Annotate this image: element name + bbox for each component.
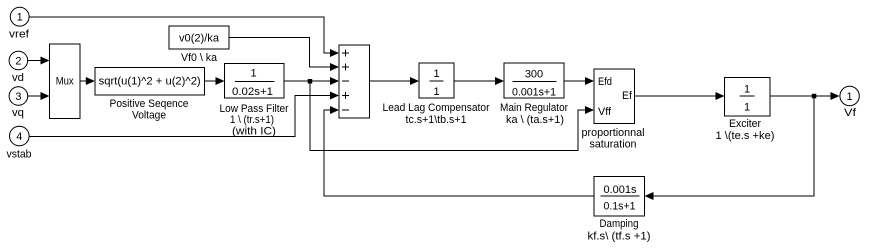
wire Low Pass Filter output to sum input 3 [284,80,330,82]
input port 4 (vstab) [7,126,32,160]
arrowhead into sum input 1 [330,49,339,57]
svg-text:4: 4 [16,131,22,143]
svg-text:1: 1 [847,91,853,103]
arrowhead into Lead Lag Compensator [410,77,419,85]
wire Damping output to sum input 5 [324,110,594,196]
wire sum output to Lead Lag Compensator [370,80,411,82]
svg-text:1: 1 [17,12,23,24]
svg-text:Vf: Vf [844,107,857,119]
wire Mux output to sqrt block [80,80,86,82]
arrowhead into Exciter [716,92,725,100]
sign - (input 5) [342,109,349,111]
wire Exciter output to output port Vf [770,95,831,97]
arrowhead into output port [831,92,840,100]
svg-text:vref: vref [9,29,30,41]
input port 2 (vd) [9,51,28,84]
block: constant v0(2)/ka [169,26,229,64]
block: Positive Sequence Voltage (sqrt) [95,68,205,122]
sign + (input 4) [342,92,349,99]
sum block [339,45,370,118]
arrowhead into sum input 4 [330,92,339,100]
block: Low Pass Filter transfer fcn [220,64,289,138]
svg-text:(with IC): (with IC) [232,126,276,138]
sign - (input 3) [342,80,349,82]
svg-text:kf.s\ (tf.s +1): kf.s\ (tf.s +1) [588,231,651,243]
arrowhead into sum input 3 [330,77,339,85]
svg-text:1: 1 [433,86,439,98]
svg-text:vd: vd [12,72,24,84]
wire vref: port1 to sum input 1 [29,17,330,53]
svg-text:1: 1 [250,68,256,80]
wire sqrt output to Low Pass Filter [204,80,215,82]
svg-text:0.02s+1: 0.02s+1 [232,86,273,98]
wire vstab: port4 to sum input 4 [29,96,330,137]
wire feedback: junction down to damping input [654,96,815,196]
wire vd to Mux [28,60,41,62]
svg-text:vstab: vstab [7,149,32,161]
block: Main Regulator transfer fcn [500,63,568,126]
svg-text:Damping: Damping [600,218,639,230]
svg-text:proportionnal: proportionnal [582,127,645,139]
arrowhead into Damping block (pointing left) [645,192,654,200]
svg-text:2: 2 [15,56,21,68]
svg-text:1: 1 [744,102,750,114]
wire vq to Mux [28,95,41,97]
arrowhead into Vff input [585,106,594,114]
svg-text:Main Regulator: Main Regulator [500,102,568,114]
svg-text:1: 1 [744,84,750,96]
svg-text:0.1s+1: 0.1s+1 [604,201,636,213]
svg-text:vq: vq [12,107,24,119]
wire Lead Lag output to Main Regulator [454,80,495,82]
Mux block [50,44,81,119]
block: proportionnal saturation [582,69,645,151]
arrowhead into sqrt block [86,77,95,85]
svg-text:Lead Lag Compensator: Lead Lag Compensator [383,102,490,114]
svg-text:1 \(te.s +ke): 1 \(te.s +ke) [716,130,775,142]
block: Lead Lag Compensator [383,63,490,126]
input port 1 (vref) [9,7,30,40]
arrowhead into Mux bottom input [41,92,50,100]
svg-text:saturation: saturation [590,139,637,151]
output port 1 (Vf) [840,86,859,119]
svg-text:1 \ (tr.s+1): 1 \ (tr.s+1) [230,114,274,126]
svg-text:Exciter: Exciter [729,118,761,130]
svg-text:v0(2)/ka: v0(2)/ka [179,33,220,45]
svg-text:sqrt(u(1)^2 + u(2)^2): sqrt(u(1)^2 + u(2)^2) [99,76,201,88]
svg-text:Ef: Ef [622,90,633,102]
svg-text:Mux: Mux [56,76,74,88]
svg-text:3: 3 [15,91,21,103]
sign + (input 1) [342,50,349,57]
junction node at filter output [308,79,313,84]
svg-text:1: 1 [433,68,439,80]
wire Main Regulator output to Efd input [564,80,585,82]
svg-text:Efd: Efd [598,76,612,88]
block: Damping transfer fcn [588,177,651,243]
sign + (input 2) [342,64,349,71]
arrowhead into Mux top input [41,57,50,65]
svg-text:0.001s+1: 0.001s+1 [512,87,556,99]
junction node at exciter output [812,94,817,99]
arrowhead into Low Pass Filter [216,77,225,85]
arrowhead into Main Regulator [495,77,504,85]
svg-text:0.001s: 0.001s [604,184,637,196]
input port 3 (vq) [9,87,28,119]
svg-text:tc.s+1\tb.s+1: tc.s+1\tb.s+1 [406,114,467,126]
arrowhead into sum input 2 [330,63,339,71]
svg-text:300: 300 [525,69,543,81]
wire v0(2)/ka to sum input 2 [229,38,330,68]
svg-text:Vf0 \ ka: Vf0 \ ka [181,52,218,64]
svg-text:ka \ (ta.s+1): ka \ (ta.s+1) [506,114,564,126]
block: Exciter transfer fcn [716,78,775,143]
wire Vff feed: junction down and right to saturation Vff input [310,81,585,151]
arrowhead into Efd input [585,77,594,85]
wire Ef output to Exciter [635,95,716,97]
svg-text:Positive Seqence: Positive Seqence [110,98,189,110]
svg-text:Voltage: Voltage [132,110,166,122]
arrowhead into sum input 5 [330,106,339,114]
svg-text:Vff: Vff [598,106,612,118]
